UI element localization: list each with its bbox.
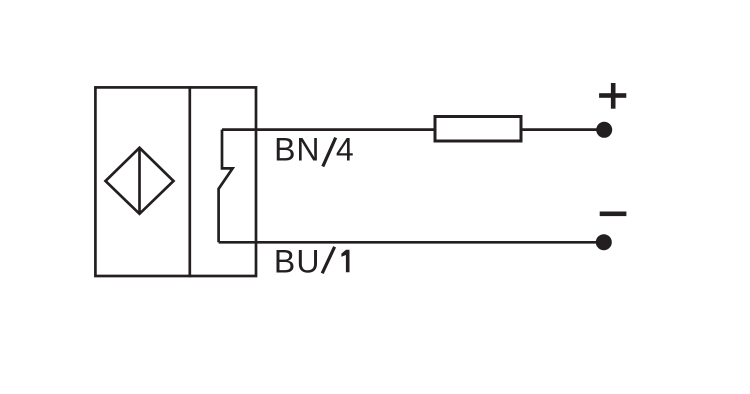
load resistor <box>435 117 521 142</box>
sensor body outline <box>95 87 256 276</box>
svg-text:4: 4 <box>336 132 354 168</box>
sensor body divider <box>188 86 191 277</box>
minus sign <box>600 212 627 217</box>
svg-text:B: B <box>274 132 295 168</box>
svg-text:B: B <box>274 243 295 279</box>
diamond center line <box>138 148 141 214</box>
terminal dot plus <box>596 122 612 138</box>
svg-text:N: N <box>296 132 319 168</box>
wire BN/4 right segment <box>521 128 604 131</box>
wire BU/1 <box>219 241 604 244</box>
terminal dot minus <box>596 234 612 250</box>
wire BN/4 left segment <box>222 128 435 131</box>
output switch element <box>219 130 233 243</box>
plus sign <box>599 93 626 98</box>
svg-text:U: U <box>296 243 319 279</box>
proximity sensor diamond symbol <box>106 148 174 214</box>
